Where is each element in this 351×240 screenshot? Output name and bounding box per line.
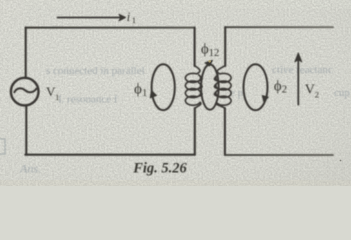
dust speck bottom right [340, 160, 342, 162]
svg-text:1: 1 [55, 93, 59, 102]
wire: bottom-left horizontal [25, 154, 195, 156]
svg-text:2: 2 [315, 90, 319, 100]
svg-text:ϕ: ϕ [274, 79, 282, 95]
svg-text:Fig. 5.26: Fig. 5.26 [132, 161, 187, 177]
dust speck near phi12 arrow [208, 60, 211, 63]
wire: bottom-right horizontal [225, 154, 333, 156]
svg-text:e p: e p [230, 87, 244, 99]
bleed box bracket left edge [0, 139, 5, 154]
voltage arrow V2 [297, 60, 299, 105]
inductor L2 (secondary coil) [214, 66, 231, 109]
main circuit ink [11, 14, 333, 155]
page background [0, 0, 351, 186]
wire: secondary top lead [224, 27, 226, 66]
svg-text:1: 1 [142, 88, 147, 99]
bleed-through text showing through page (faint) [0, 64, 350, 176]
svg-text:12: 12 [209, 48, 220, 59]
source V1 circle [11, 78, 39, 106]
svg-text:1: 1 [132, 15, 136, 25]
svg-text:ctive reactanc: ctive reactanc [272, 64, 333, 76]
svg-text:V: V [305, 83, 315, 98]
svg-text:Ans.: Ans. [19, 162, 41, 176]
flux phi1 arrowhead [150, 91, 156, 98]
source sine tilde [14, 88, 36, 92]
wire: left rail upper [25, 28, 27, 79]
svg-text:cup: cup [334, 87, 350, 99]
wire: primary top lead [194, 28, 196, 66]
flux phi2 loop [244, 64, 268, 110]
inductor L1 (primary coil) [185, 66, 202, 109]
wire: left rail lower [25, 105, 27, 154]
svg-text:i: i [127, 10, 131, 24]
wire: top-left horizontal [26, 27, 195, 29]
wire: top-right horizontal [225, 26, 333, 28]
flux phi2 arrowhead [262, 96, 268, 102]
svg-text:ϕ: ϕ [201, 42, 209, 58]
current arrow i1 [58, 17, 121, 19]
svg-text:I. resonance f: I. resonance f [58, 94, 118, 106]
flux phi12 arrowhead [205, 60, 213, 66]
wire: primary bottom lead [194, 108, 196, 155]
flux phi12 loop (mutual) [201, 65, 219, 110]
svg-text:s connected in parallel: s connected in parallel [46, 65, 145, 77]
svg-text:2: 2 [282, 84, 288, 96]
flux phi1 loop [152, 64, 175, 110]
wire: secondary bottom lead [224, 108, 226, 155]
svg-text:ϕ: ϕ [134, 82, 142, 98]
